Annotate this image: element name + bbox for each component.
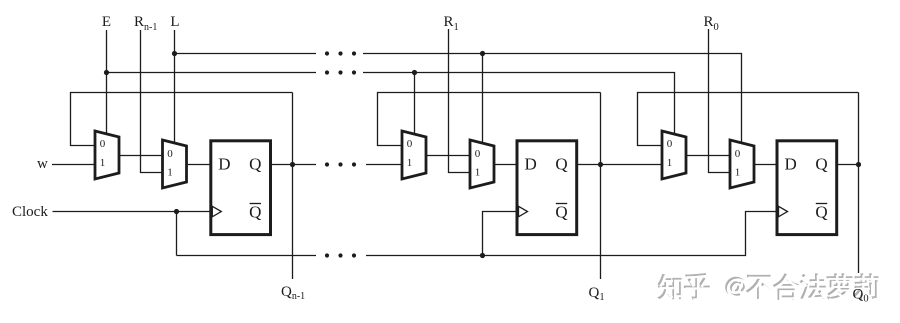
svg-text:Q: Q bbox=[249, 154, 261, 173]
junction clock stage-1 bbox=[174, 209, 179, 214]
svg-text:0: 0 bbox=[100, 138, 106, 150]
junction node Q1 bbox=[598, 162, 603, 167]
wire clock drop stage-1 bbox=[176, 212, 178, 256]
wire E bus right segment with drop to stage-3 mux select bbox=[363, 73, 675, 135]
wire stage-3 Q output bbox=[837, 164, 859, 166]
wire stage-1 Q output bbox=[270, 164, 316, 166]
wire E drop to stage-2 mux select bbox=[414, 73, 416, 135]
svg-text:0: 0 bbox=[475, 148, 481, 160]
svg-text:E: E bbox=[102, 14, 111, 30]
multiplexer U8 bbox=[730, 140, 754, 188]
svg-text:0: 0 bbox=[735, 148, 741, 160]
wire E input vertical bbox=[106, 30, 108, 135]
junction E bus at input E bbox=[104, 70, 109, 75]
wire stage-2 mux1 output to mux2 pin 0 bbox=[426, 155, 470, 157]
svg-text:1: 1 bbox=[167, 167, 173, 179]
ellipsis dots data chain bbox=[325, 162, 356, 166]
svg-text:D: D bbox=[525, 154, 537, 173]
watermark zhihu gray text bbox=[658, 273, 878, 299]
D flip-flop U3 bbox=[211, 141, 271, 235]
wire R1 input to stage-2 mux2 pin 1 bbox=[449, 29, 472, 173]
junction L bus at input L bbox=[172, 51, 177, 56]
wire L bus right segment with drop to stage-3 mux select bbox=[363, 54, 742, 144]
svg-text:D: D bbox=[785, 154, 797, 173]
svg-text:Clock: Clock bbox=[12, 204, 48, 220]
junction clock stage-2 bbox=[480, 253, 485, 258]
watermark zhihu white emboss offset bbox=[660, 275, 880, 301]
D flip-flop U9 bbox=[777, 141, 837, 235]
multiplexer U2 bbox=[163, 140, 187, 188]
multiplexer U4 bbox=[402, 131, 426, 179]
wire stage-3 feedback from node Q0 to mux pin 0 bbox=[638, 93, 859, 146]
wire node Q0 vertical bbox=[858, 93, 860, 274]
wire stage-3 mux1 output to mux2 pin 0 bbox=[686, 155, 730, 157]
multiplexer U1 bbox=[95, 131, 119, 179]
multiplexer U5 bbox=[470, 140, 494, 188]
svg-text:1: 1 bbox=[735, 167, 741, 179]
svg-text:Q: Q bbox=[555, 154, 567, 173]
wire E bus left segment bbox=[107, 72, 317, 74]
svg-text:D: D bbox=[218, 154, 230, 173]
svg-text:1: 1 bbox=[100, 157, 106, 169]
wire stage-2 feedback from node Q1 to mux pin 0 bbox=[378, 93, 601, 146]
wire clock input bbox=[53, 211, 211, 213]
wire data chain into stage-2 mux pin 1 bbox=[366, 164, 402, 166]
wire Rn-1 input to mux2 pin 1 bbox=[141, 30, 164, 173]
wire clock bus right segment rising to stage-3 clock pin bbox=[366, 212, 776, 256]
ellipsis dots L bus bbox=[325, 51, 356, 55]
wire node Qn-1 vertical bbox=[292, 93, 294, 280]
wire stage-1 mux2 output to D bbox=[187, 164, 211, 166]
svg-text:Q: Q bbox=[815, 203, 827, 222]
svg-text:1: 1 bbox=[667, 157, 673, 169]
wire stage-2 Q output to stage-3 mux pin 1 bbox=[577, 164, 662, 166]
wire clock rise to stage-2 clock pin bbox=[483, 212, 517, 256]
svg-text:1: 1 bbox=[475, 167, 481, 179]
wire stage-1 mux1 output to mux2 pin 0 bbox=[119, 155, 163, 157]
svg-text:Q: Q bbox=[249, 203, 261, 222]
svg-text:1: 1 bbox=[407, 157, 413, 169]
ellipsis dots clock bus bbox=[325, 253, 356, 257]
wire node Q1 vertical bbox=[600, 93, 602, 280]
svg-text:0: 0 bbox=[407, 138, 413, 150]
wire stage-1 feedback from node Qn-1 to mux pin 0 bbox=[71, 93, 293, 146]
wire R0 input to stage-3 mux2 pin 1 bbox=[709, 29, 732, 173]
multiplexer U7 bbox=[662, 131, 686, 179]
junction L bus stage-2 drop bbox=[480, 51, 485, 56]
wire stage-3 mux2 output to D bbox=[754, 164, 776, 166]
D flip-flop U6 bbox=[517, 141, 577, 235]
junction node Q0 bbox=[856, 162, 861, 167]
wire L drop to stage-2 mux select bbox=[482, 54, 484, 144]
svg-text:Q: Q bbox=[815, 154, 827, 173]
svg-text:0: 0 bbox=[167, 148, 173, 160]
junction node Qn-1 bbox=[290, 162, 295, 167]
svg-text:Q: Q bbox=[555, 203, 567, 222]
junction E bus stage-2 drop bbox=[412, 70, 417, 75]
svg-text:L: L bbox=[170, 14, 179, 30]
wire w input bbox=[52, 164, 95, 166]
ellipsis dots E bus bbox=[325, 70, 356, 74]
wire L bus left segment bbox=[175, 53, 317, 55]
wire L input vertical bbox=[174, 30, 176, 144]
wire stage-2 mux2 output to D bbox=[494, 164, 516, 166]
svg-text:0: 0 bbox=[667, 138, 673, 150]
wire clock bus left segment bbox=[177, 255, 317, 257]
svg-text:w: w bbox=[37, 156, 48, 172]
